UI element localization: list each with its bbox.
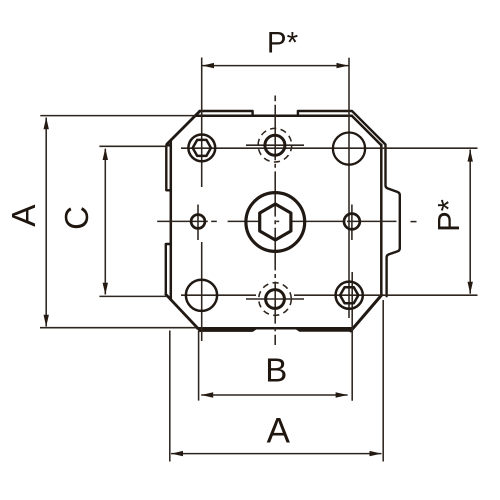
dimension P* top: right arrow [337,63,349,68]
plain hole bottom-left [186,280,217,311]
dimension A left: top arrow [44,117,49,129]
dimension A bottom: left arrow [171,451,183,456]
center bore [246,193,305,252]
middle row centerline [157,220,396,222]
top row centerline [181,147,478,149]
svg-text:A: A [267,412,291,451]
bottom row centerline [181,294,478,296]
body top lip right segment and right body edge with protrusion [298,111,400,296]
plate left edge [170,140,173,299]
port top (solid) [265,135,285,155]
dimension P* top: left arrow [202,63,214,68]
dimension A left: extension top [40,115,195,117]
dimension C left: extension bottom [99,295,166,297]
dimension P* right: top arrow [468,150,473,162]
column centerline left upper [201,58,203,188]
dimension P* top: line [202,65,349,67]
dimension B bottom: line [201,394,347,396]
hex-socket screw top-left [188,135,215,162]
hex-socket screw bottom-right [336,282,363,309]
port bottom (solid) [266,290,285,309]
B extension line left [198,331,200,401]
column centerline right [348,58,350,318]
svg-text:A: A [6,204,43,227]
body left edge upper segment [166,145,171,190]
left middle hole vertical centerline [197,205,199,241]
dimension A left: extension bottom [40,327,196,329]
dimension B bottom: right arrow [336,392,348,397]
port top (dashed circle) [258,128,292,162]
plate top edge [195,114,351,117]
top port horizontal centerline [246,144,304,146]
bottom-right corner chamfer [351,295,382,331]
top-right corner chamfer [352,116,382,146]
plate bottom edge [197,327,352,330]
body bottom lip left segment [200,328,256,330]
dimension C left: bottom arrow [103,283,108,295]
small hole right-middle [344,214,360,230]
bottom-left corner chamfer [166,294,200,330]
dimension A bottom: extension left [169,331,171,462]
top-left corner chamfer [167,111,200,144]
bottom port horizontal centerline [246,298,304,300]
dimension A bottom: right arrow [370,451,382,456]
B extension line right [351,272,353,401]
plate right edge [380,145,383,296]
dimension P* right: bottom arrow [468,282,473,294]
body top lip left segment [200,111,253,115]
dimension A bottom: extension right [382,300,384,462]
svg-text:C: C [58,206,95,230]
dimension P* right: line [469,150,471,294]
plain hole top-right [333,133,365,165]
right middle hole vertical centerline [351,205,353,241]
body bottom lip right segment [296,328,350,330]
svg-text:B: B [265,352,287,389]
dimension A left: bottom arrow [44,315,49,327]
body left edge lower segment [166,244,171,294]
dimension C left: top arrow [103,148,108,160]
middle row centerline dash beyond protrusion [411,221,417,223]
column centerline left lower [201,242,203,341]
vertical centerline dash above plate [274,96,276,102]
dimension C left: extension top [99,145,166,147]
port bottom (dashed circle) [259,283,292,316]
vertical centerline [274,105,276,345]
dimension A left: line [45,118,47,327]
dimension A bottom: line [171,453,382,455]
small hole left-middle [191,215,205,229]
center hex socket [260,204,291,240]
svg-text:P*: P* [267,27,299,60]
svg-text:P*: P* [431,199,466,232]
dimension C left: line [104,149,106,295]
dimension B bottom: left arrow [201,392,213,397]
